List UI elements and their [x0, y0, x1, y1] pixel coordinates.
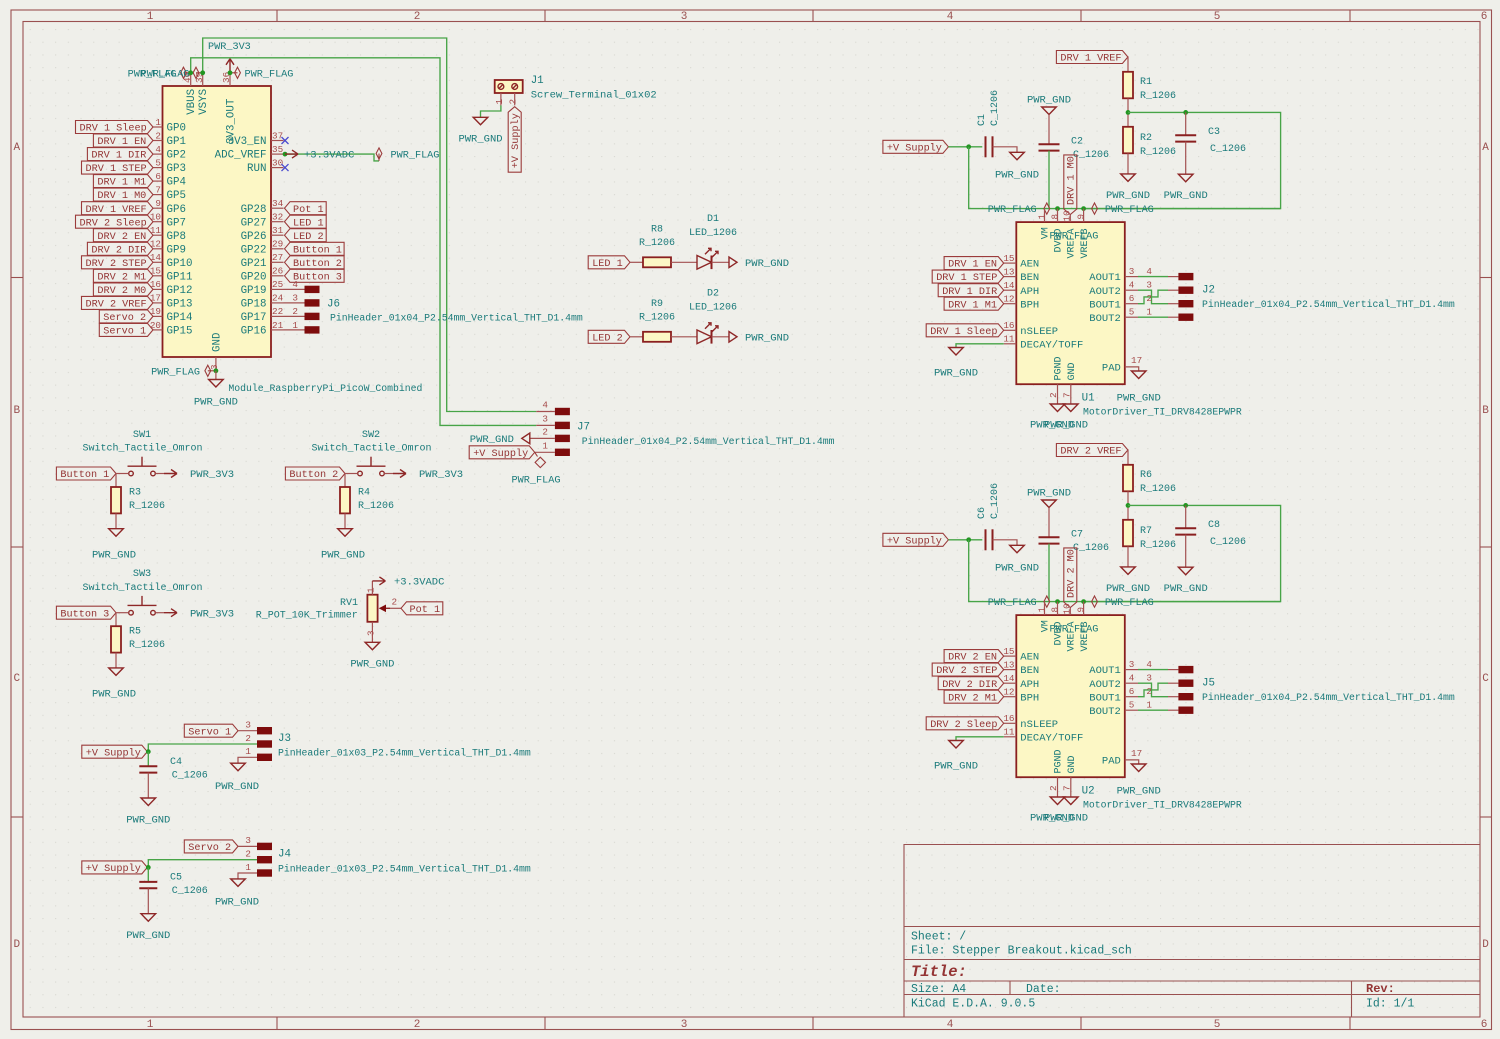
switch SW1 Switch_Tactile_Omron — [82, 430, 202, 476]
svg-text:PGND: PGND — [1054, 749, 1065, 773]
hierarchical label DRV 1 M1 — [93, 175, 153, 189]
power symbol PWR_3V3 at SW3 — [164, 608, 234, 620]
svg-text:3: 3 — [365, 630, 376, 636]
svg-text:4: 4 — [542, 400, 548, 411]
svg-text:AOUT2: AOUT2 — [1089, 286, 1121, 298]
power flag right U1 — [1092, 203, 1154, 216]
wire switch SW1 to power — [155, 473, 164, 475]
svg-text:C: C — [13, 673, 20, 685]
pico pin 9 GP6 — [153, 198, 186, 216]
svg-text:Screw_Terminal_01x02: Screw_Terminal_01x02 — [531, 90, 657, 102]
junction at +V U1 — [966, 144, 971, 149]
hierarchical label LED 1 — [285, 215, 327, 229]
svg-text:1: 1 — [494, 99, 505, 105]
svg-text:PWR_GND: PWR_GND — [934, 368, 978, 380]
hierarchical label DRV 1 DIR — [87, 148, 153, 162]
svg-text:DRV 2 Sleep: DRV 2 Sleep — [930, 719, 997, 731]
svg-text:D: D — [13, 939, 20, 951]
svg-text:PWR_GND: PWR_GND — [1164, 190, 1208, 202]
capacitor C5 C_1206 — [139, 873, 207, 898]
svg-text:4: 4 — [1146, 266, 1152, 277]
power symbol PWR_GND at C6 — [995, 545, 1039, 574]
U2 pin 17 PAD — [1102, 748, 1142, 768]
pico pin 5 GP3 — [153, 157, 186, 175]
hierarchical label LED 2 — [588, 330, 630, 344]
svg-text:PinHeader_01x03_P2.54mm_Vertic: PinHeader_01x03_P2.54mm_Vertical_THT_D1.… — [278, 748, 531, 759]
svg-text:R_1206: R_1206 — [1140, 484, 1176, 495]
hierarchical label LED 1 — [588, 256, 630, 270]
svg-text:C5: C5 — [170, 873, 182, 884]
hierarchical label Pot 1 — [401, 602, 443, 616]
wire +V Supply to J3 pad 2 — [147, 744, 257, 752]
svg-text:+V Supply: +V Supply — [86, 747, 141, 759]
pico pin 36 3V3_OUT — [221, 72, 237, 144]
wire R2 to ground — [1127, 153, 1129, 174]
pico pin 19 GP14 — [150, 306, 193, 324]
svg-text:1: 1 — [1146, 700, 1152, 711]
svg-text:12: 12 — [1003, 687, 1014, 698]
svg-text:PWR_GND: PWR_GND — [1164, 583, 1208, 595]
svg-text:Button 1: Button 1 — [60, 470, 109, 481]
connector J5 pads — [1178, 666, 1193, 673]
hierarchical label DRV 2 VREF — [82, 296, 154, 310]
svg-text:PWR_GND: PWR_GND — [215, 897, 259, 909]
svg-text:2: 2 — [292, 306, 298, 317]
svg-text:RV1: RV1 — [340, 598, 358, 609]
power symbol PWR_GND at R3 — [92, 529, 136, 562]
svg-text:5: 5 — [1214, 11, 1221, 23]
wire VREF label to R6 — [1127, 450, 1129, 465]
hierarchical label DRV 1 VREF — [82, 202, 154, 216]
power flag left U2 — [988, 596, 1050, 609]
pico pin 1 GP0 — [153, 117, 186, 135]
svg-text:Sheet: /: Sheet: / — [911, 931, 966, 944]
hierarchical label DRV 1 M1 — [944, 297, 1004, 311]
potentiometer RV1 R_POT_10K_Trimmer — [256, 595, 390, 622]
pico pin 16 GP12 — [150, 279, 193, 297]
svg-text:+V Supply: +V Supply — [473, 448, 528, 460]
U1 pin 16 nSLEEP — [1003, 320, 1058, 338]
svg-text:12: 12 — [1003, 294, 1014, 305]
wire D1 to ground — [712, 261, 730, 263]
svg-text:R8: R8 — [651, 225, 663, 236]
power flag at VSYS — [141, 67, 203, 80]
svg-text:10: 10 — [1061, 603, 1072, 614]
power symbol PWR_GND at DECAY U2 — [934, 741, 978, 773]
svg-text:J6: J6 — [327, 299, 340, 311]
capacitor C4 C_1206 — [139, 757, 207, 782]
svg-text:SW2: SW2 — [362, 430, 380, 441]
svg-text:DRV 2 VREF: DRV 2 VREF — [86, 300, 147, 311]
connector J6 pad 4 — [305, 286, 320, 293]
svg-text:PinHeader_01x03_P2.54mm_Vertic: PinHeader_01x03_P2.54mm_Vertical_THT_D1.… — [278, 863, 531, 874]
hierarchical label DRV 1 DIR — [938, 284, 1004, 298]
connector J6 pad 2 — [305, 313, 320, 320]
svg-text:3: 3 — [1129, 266, 1135, 277]
svg-text:GP27: GP27 — [241, 217, 267, 229]
svg-text:MotorDriver_TI_DRV8428EPWPR: MotorDriver_TI_DRV8428EPWPR — [1083, 800, 1242, 811]
power symbol PWR_GND above C7 — [1027, 488, 1071, 538]
svg-text:PWR_GND: PWR_GND — [92, 689, 136, 701]
power symbol PWR_GND at J4 pin 1 — [215, 879, 259, 909]
svg-text:GP1: GP1 — [167, 136, 186, 148]
svg-text:R_POT_10K_Trimmer: R_POT_10K_Trimmer — [256, 610, 358, 622]
svg-text:DRV 1 VREF: DRV 1 VREF — [86, 205, 147, 216]
hierarchical label Servo 1 — [99, 323, 153, 337]
hierarchical label DRV 2 M1 — [93, 269, 153, 283]
wire J7 pad4 stub — [536, 411, 555, 413]
svg-text:1: 1 — [1146, 307, 1152, 318]
svg-text:1: 1 — [292, 320, 298, 331]
wire D2 to ground — [712, 336, 730, 338]
junction at C8 — [1183, 503, 1188, 508]
svg-text:PWR_GND: PWR_GND — [1106, 190, 1150, 202]
svg-text:File: Stepper Breakout.kicad_s: File: Stepper Breakout.kicad_sch — [911, 945, 1132, 958]
wire switch SW2 to power — [384, 473, 393, 475]
connector J2 pads — [1178, 273, 1193, 280]
wire LED 1 to R8 — [630, 261, 643, 263]
svg-text:12: 12 — [150, 239, 161, 250]
U2 pin 16 nSLEEP — [1003, 713, 1058, 731]
svg-text:DRV 1 EN: DRV 1 EN — [97, 137, 146, 148]
svg-text:+V Supply: +V Supply — [86, 863, 141, 875]
svg-text:17: 17 — [150, 293, 161, 304]
pico pin 39 VSYS — [194, 72, 210, 115]
svg-text:10: 10 — [150, 212, 161, 223]
svg-text:C3: C3 — [1208, 127, 1220, 138]
power symbol PWR_GND at R4 — [321, 529, 365, 562]
svg-text:R4: R4 — [358, 488, 370, 499]
pico pin 27 GP21 — [241, 252, 284, 270]
svg-text:DRV 1 Sleep: DRV 1 Sleep — [930, 326, 997, 338]
svg-text:J2: J2 — [1202, 285, 1215, 297]
svg-text:GP6: GP6 — [167, 204, 186, 216]
svg-text:BPH: BPH — [1020, 692, 1039, 704]
svg-text:2: 2 — [1146, 293, 1152, 304]
svg-text:11: 11 — [1003, 334, 1015, 345]
svg-text:2: 2 — [414, 11, 421, 23]
pico pin 10 GP7 — [150, 212, 186, 230]
U1 pin 11 DECAY/TOFF — [1003, 334, 1083, 352]
svg-text:PWR_FLAG: PWR_FLAG — [391, 151, 440, 162]
power symbol PWR_GND at J7 pin 2 — [470, 426, 555, 446]
U1 pin 17 PAD — [1102, 355, 1142, 375]
svg-text:2: 2 — [1048, 785, 1059, 791]
svg-text:R_1206: R_1206 — [639, 313, 675, 324]
junction at VBUS — [188, 70, 193, 75]
svg-text:C8: C8 — [1208, 520, 1220, 531]
hierarchical label DRV 2 VREF — [1056, 444, 1128, 458]
svg-text:nSLEEP: nSLEEP — [1020, 719, 1058, 731]
svg-text:PWR_3V3: PWR_3V3 — [208, 42, 251, 53]
svg-text:4: 4 — [1129, 280, 1135, 291]
svg-text:R7: R7 — [1140, 526, 1152, 537]
svg-text:10: 10 — [1061, 210, 1072, 221]
svg-text:16: 16 — [1003, 713, 1014, 724]
U1 pin 1 VM — [1037, 209, 1052, 240]
wire BOUT2 to J2 pad 1 — [1138, 316, 1168, 318]
pico pin 15 GP11 — [150, 266, 193, 284]
svg-text:+V Supply: +V Supply — [510, 113, 522, 168]
svg-text:APH: APH — [1020, 286, 1039, 298]
svg-text:DRV 1 M1: DRV 1 M1 — [948, 300, 997, 311]
power symbol PWR_GND at J3 pin 1 — [215, 763, 259, 793]
svg-text:2: 2 — [1048, 392, 1059, 398]
junction at DVDD riser — [1055, 206, 1060, 211]
svg-text:6: 6 — [1481, 11, 1488, 23]
power symbol PWR_3V3 at 3V3_OUT — [208, 42, 251, 73]
svg-text:+V Supply: +V Supply — [887, 535, 942, 547]
svg-text:PWR_GND: PWR_GND — [1106, 583, 1150, 595]
wire DECAY/TOFF to ground U2 — [956, 737, 1004, 741]
wire R8 to D1 — [671, 261, 697, 263]
svg-text:RUN: RUN — [247, 163, 266, 175]
svg-text:PWR_GND: PWR_GND — [92, 550, 136, 562]
capacitor C1 C_1206 — [977, 90, 1001, 157]
U2 pin 14 APH — [1003, 673, 1039, 691]
svg-text:PWR_GND: PWR_GND — [1027, 488, 1071, 500]
svg-text:DRV 2 M0: DRV 2 M0 — [1067, 549, 1078, 598]
U2 pin 2 PGND — [1048, 749, 1065, 797]
wire VREF label to R1 — [1127, 57, 1129, 72]
svg-text:+V Supply: +V Supply — [887, 142, 942, 154]
svg-text:PWR_FLAG: PWR_FLAG — [245, 69, 294, 80]
connector J6 pad 1 — [305, 326, 320, 333]
svg-text:DRV 2 STEP: DRV 2 STEP — [86, 259, 147, 270]
svg-text:GND: GND — [1067, 362, 1078, 380]
pot RV1 pin 1 — [365, 581, 376, 595]
svg-text:11: 11 — [1003, 727, 1015, 738]
svg-text:7: 7 — [155, 184, 161, 195]
wire to J6 pad 1 — [284, 320, 305, 331]
junction at 3V3_OUT — [228, 70, 233, 75]
svg-text:MotorDriver_TI_DRV8428EPWPR: MotorDriver_TI_DRV8428EPWPR — [1083, 407, 1242, 418]
svg-text:4: 4 — [947, 11, 954, 23]
svg-text:R2: R2 — [1140, 133, 1152, 144]
svg-text:14: 14 — [1003, 673, 1015, 684]
hierarchical label Button 3 — [285, 269, 345, 283]
junction at R1/R2 — [1126, 110, 1131, 115]
pico pin 31 GP26 — [241, 225, 284, 243]
U2 pin 4 AOUT2 — [1089, 673, 1138, 691]
power symbol +3.3VADC at ADC_VREF — [285, 150, 354, 162]
power flag right U2 — [1092, 596, 1154, 609]
hierarchical label DRV 2 M0 — [1064, 548, 1078, 608]
U2 pin 3 AOUT1 — [1089, 659, 1138, 677]
svg-text:C2: C2 — [1071, 137, 1083, 148]
svg-text:15: 15 — [1003, 253, 1014, 264]
svg-text:1: 1 — [1037, 214, 1048, 220]
power symbol PWR_GND above C2 — [1027, 95, 1071, 145]
svg-text:LED 1: LED 1 — [592, 259, 623, 270]
svg-text:PWR_FLAG: PWR_FLAG — [512, 476, 561, 487]
svg-text:GP17: GP17 — [241, 312, 267, 324]
svg-text:A: A — [13, 142, 20, 154]
U2 pin 1 VM — [1037, 602, 1052, 633]
svg-text:SW1: SW1 — [133, 430, 151, 441]
junction at VSYS — [200, 70, 205, 75]
svg-text:3: 3 — [245, 720, 251, 731]
resistor R1 — [1123, 72, 1176, 102]
svg-text:2: 2 — [542, 426, 548, 437]
svg-text:1: 1 — [542, 440, 548, 451]
svg-text:GP9: GP9 — [167, 244, 186, 256]
svg-text:1: 1 — [365, 587, 376, 593]
svg-text:GP3: GP3 — [167, 163, 186, 175]
svg-text:Servo 2: Servo 2 — [103, 313, 146, 324]
resistor R8 — [639, 225, 675, 268]
svg-text:2: 2 — [392, 597, 398, 608]
svg-text:PWR_GND: PWR_GND — [1117, 786, 1161, 798]
svg-text:VBUS: VBUS — [186, 89, 198, 115]
svg-text:GP14: GP14 — [167, 312, 193, 324]
wire to J6 pad 2 — [284, 306, 305, 317]
svg-text:GP15: GP15 — [167, 326, 193, 338]
svg-text:Servo 1: Servo 1 — [188, 727, 231, 738]
svg-text:DRV 2 DIR: DRV 2 DIR — [91, 245, 146, 256]
pico pin 26 GP20 — [241, 266, 284, 284]
svg-text:ADC_VREF: ADC_VREF — [215, 150, 267, 162]
connector J3 pads — [257, 727, 272, 734]
svg-text:9: 9 — [155, 198, 161, 209]
svg-text:4: 4 — [1146, 659, 1152, 670]
svg-text:AOUT1: AOUT1 — [1089, 665, 1121, 677]
svg-text:BOUT1: BOUT1 — [1089, 692, 1121, 704]
hierarchical label LED 2 — [285, 229, 327, 243]
svg-text:17: 17 — [1131, 748, 1142, 759]
svg-text:Button 3: Button 3 — [60, 609, 109, 620]
svg-text:PinHeader_01x04_P2.54mm_Vertic: PinHeader_01x04_P2.54mm_Vertical_THT_D1.… — [582, 436, 835, 447]
wire +V Supply to J4 pad 2 — [147, 860, 257, 868]
svg-text:LED 2: LED 2 — [293, 232, 324, 243]
connector J1 screw terminal body — [495, 80, 523, 93]
U2 pin 10 VREFA — [1061, 603, 1077, 651]
svg-text:DRV 2 STEP: DRV 2 STEP — [936, 666, 997, 677]
svg-text:GP18: GP18 — [241, 299, 267, 311]
svg-text:9: 9 — [1076, 607, 1087, 613]
wire +V to capacitor C5 — [147, 867, 149, 882]
wire vref net to C8 and VREFB — [1084, 505, 1281, 601]
wire BOUT1 to J2 pad 3 — [1138, 290, 1168, 304]
svg-text:3: 3 — [292, 293, 298, 304]
pico pin 2 GP1 — [153, 130, 186, 148]
U1 pin 2 PGND — [1048, 356, 1065, 404]
svg-text:4: 4 — [947, 1019, 954, 1031]
svg-text:5: 5 — [1214, 1019, 1221, 1031]
svg-text:37: 37 — [272, 130, 283, 141]
hierarchical label DRV 2 STEP — [932, 663, 1004, 677]
svg-text:PWR_FLAG: PWR_FLAG — [141, 69, 190, 80]
svg-text:B: B — [13, 405, 20, 417]
svg-text:J4: J4 — [278, 849, 291, 861]
svg-text:BOUT2: BOUT2 — [1089, 706, 1121, 718]
svg-text:PWR_GND: PWR_GND — [1044, 420, 1088, 432]
pico pin 24 GP18 — [241, 293, 284, 311]
wire vref net to C3 and VREFB — [1084, 112, 1281, 208]
wire +V Supply down to VM rail — [969, 540, 1281, 602]
svg-text:22: 22 — [272, 306, 283, 317]
wire switch SW3 to power — [155, 612, 164, 614]
svg-text:C_1206: C_1206 — [1210, 144, 1246, 155]
power symbol PWR_GND at PGND U2 — [1030, 797, 1074, 825]
wire LED 2 to R9 — [630, 336, 643, 338]
svg-text:3: 3 — [1146, 673, 1152, 684]
hierarchical label +V Supply at J3 — [82, 745, 148, 759]
power symbol PWR_GND at D1 — [729, 257, 789, 270]
svg-text:C_1206: C_1206 — [990, 90, 1001, 126]
svg-text:27: 27 — [272, 252, 283, 263]
svg-text:+3.3VADC: +3.3VADC — [394, 577, 444, 589]
svg-text:C_1206: C_1206 — [990, 483, 1001, 519]
svg-text:PWR_GND: PWR_GND — [194, 397, 238, 409]
svg-text:GP2: GP2 — [167, 150, 186, 162]
svg-text:5: 5 — [1129, 700, 1135, 711]
U2 pin 8 DVDD — [1050, 602, 1065, 646]
svg-text:GP7: GP7 — [167, 217, 186, 229]
power flag at VBUS — [128, 67, 191, 80]
junction at VREFB riser — [1081, 206, 1086, 211]
svg-text:PWR_3V3: PWR_3V3 — [419, 469, 463, 481]
svg-text:13: 13 — [1003, 659, 1014, 670]
svg-text:GP28: GP28 — [241, 204, 267, 216]
svg-text:Servo 2: Servo 2 — [188, 843, 231, 854]
wire C7 to DVDD rail — [1048, 544, 1050, 602]
svg-text:LED 2: LED 2 — [592, 333, 623, 344]
pico pin 37 3V3_EN — [228, 130, 284, 148]
svg-text:C_1206: C_1206 — [1210, 537, 1246, 548]
hierarchical label DRV 2 Sleep — [926, 717, 1004, 731]
svg-text:29: 29 — [272, 239, 283, 250]
svg-text:DRV 2 M0: DRV 2 M0 — [97, 286, 146, 297]
svg-text:26: 26 — [272, 266, 283, 277]
svg-text:4: 4 — [155, 144, 161, 155]
svg-text:5: 5 — [1129, 307, 1135, 318]
junction at pico GND — [214, 368, 219, 373]
svg-text:R1: R1 — [1140, 77, 1152, 88]
svg-text:Button 3: Button 3 — [293, 272, 342, 283]
svg-text:DRV 1 EN: DRV 1 EN — [948, 260, 997, 271]
pico pin 25 GP19 — [241, 279, 284, 297]
pico pin 3 GND — [209, 333, 224, 371]
junction at DVDD riser — [1055, 599, 1060, 604]
svg-text:PinHeader_01x04_P2.54mm_Vertic: PinHeader_01x04_P2.54mm_Vertical_THT_D1.… — [1202, 692, 1455, 703]
hierarchical label DRV 1 VREF — [1056, 51, 1128, 65]
svg-text:PWR_GND: PWR_GND — [745, 333, 789, 345]
U2 pin 12 BPH — [1003, 687, 1039, 705]
svg-text:SW3: SW3 — [133, 569, 151, 580]
svg-text:6: 6 — [1129, 293, 1135, 304]
svg-text:PWR_GND: PWR_GND — [934, 761, 978, 773]
svg-text:1: 1 — [245, 746, 251, 757]
svg-text:U1: U1 — [1082, 393, 1095, 405]
hierarchical label DRV 2 M0 — [93, 283, 153, 297]
hierarchical label DRV 2 Sleep — [76, 215, 154, 229]
connector J1 pin 2 — [508, 93, 519, 105]
power symbol PWR_GND under C4 — [126, 798, 170, 826]
power symbol PWR_GND at C1 — [995, 152, 1039, 181]
svg-text:PAD: PAD — [1102, 756, 1121, 768]
svg-text:PinHeader_01x04_P2.54mm_Vertic: PinHeader_01x04_P2.54mm_Vertical_THT_D1.… — [330, 313, 583, 324]
wire Button 3 to switch SW3 — [116, 612, 129, 614]
title block — [904, 845, 1480, 1018]
svg-text:Button 2: Button 2 — [293, 259, 342, 270]
switch SW2 Switch_Tactile_Omron — [311, 430, 431, 476]
svg-text:C7: C7 — [1071, 530, 1083, 541]
svg-text:2: 2 — [245, 733, 251, 744]
svg-text:DRV 1 VREF: DRV 1 VREF — [1060, 54, 1121, 65]
hierarchical label DRV 1 STEP — [82, 161, 154, 175]
U1 pin 6 BOUT1 — [1089, 293, 1138, 311]
